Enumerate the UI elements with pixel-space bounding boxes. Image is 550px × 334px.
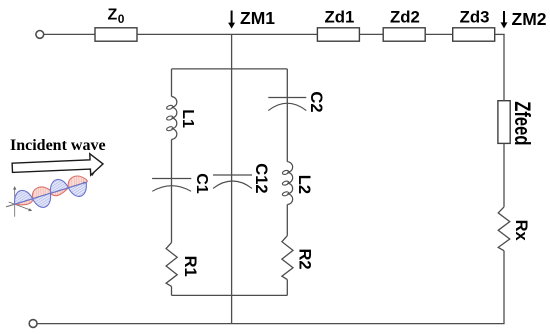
inductor L2 — [287, 162, 292, 205]
wire: sub top rail — [172, 68, 288, 70]
svg-text:ZM1: ZM1 — [240, 8, 275, 28]
svg-text:Zd2: Zd2 — [390, 8, 420, 27]
svg-text:Rx: Rx — [512, 220, 530, 242]
capacitor C12 — [213, 174, 252, 176]
terminal top-left — [36, 31, 44, 39]
svg-text:R1: R1 — [181, 256, 199, 277]
svg-text:0: 0 — [118, 12, 125, 26]
svg-text:ZM2: ZM2 — [512, 9, 547, 29]
wire: Zd3 to right corner — [495, 33, 505, 35]
wire: right branch upper — [286, 69, 288, 162]
node ZM1 arrow — [231, 11, 233, 24]
resistor R1 — [166, 243, 177, 287]
wire top: terminal to Z0 — [44, 33, 95, 35]
resistor Zd2 — [383, 28, 425, 41]
wire: Zd2 to Zd3 — [425, 33, 453, 35]
wire: Zd1 to Zd2 — [359, 33, 383, 35]
wire: Z0 to Zd1 — [137, 33, 317, 35]
wire: middle vertical — [231, 34, 233, 323]
svg-text:Incident wave: Incident wave — [10, 137, 106, 154]
wire: L2 to R2 — [286, 205, 288, 236]
resistor R2 — [282, 236, 293, 280]
svg-text:Z: Z — [108, 7, 118, 24]
wire: Zfeed to Rx — [503, 143, 505, 207]
svg-text:Zd1: Zd1 — [325, 8, 355, 27]
red E-field lobes — [12, 173, 89, 208]
resistor Zfeed — [498, 101, 510, 144]
blue B-field lobes — [11, 172, 89, 216]
svg-text:C12: C12 — [252, 163, 270, 193]
wire bottom rail — [37, 323, 504, 325]
wire: R1 to sub bottom rail — [171, 286, 173, 295]
resistor Rx — [498, 207, 510, 251]
resistor Zd3 — [453, 28, 495, 41]
axis origin frame: oblique axis — [9, 202, 30, 210]
svg-text:R2: R2 — [295, 249, 313, 270]
capacitor C1 — [152, 178, 191, 180]
inductor L1 — [172, 97, 177, 140]
svg-text:Zfeed: Zfeed — [510, 101, 535, 145]
wire: left branch upper — [171, 69, 173, 97]
svg-text:C1: C1 — [193, 173, 210, 194]
resistor Zd1 — [317, 28, 359, 41]
wire: L1 to R1 through C1 — [171, 139, 173, 242]
wire: right vertical top — [503, 34, 505, 100]
wave axis — [6, 183, 84, 207]
svg-text:C2: C2 — [307, 91, 325, 112]
svg-text:L2: L2 — [295, 175, 313, 194]
node ZM2 arrow — [503, 11, 505, 24]
axis end tick — [90, 171, 94, 175]
wire: sub bottom rail — [172, 294, 288, 296]
incident wave arrow — [12, 153, 104, 178]
wire: R2 to sub bottom rail — [286, 280, 288, 296]
axis origin frame: vertical axis — [14, 189, 16, 217]
capacitor C2 — [268, 97, 306, 99]
svg-text:Zd3: Zd3 — [460, 8, 490, 27]
terminal bottom-left — [29, 320, 37, 328]
svg-text:L1: L1 — [179, 109, 196, 128]
resistor Z0 — [95, 28, 137, 41]
wire: Rx to bottom corner — [503, 251, 505, 324]
